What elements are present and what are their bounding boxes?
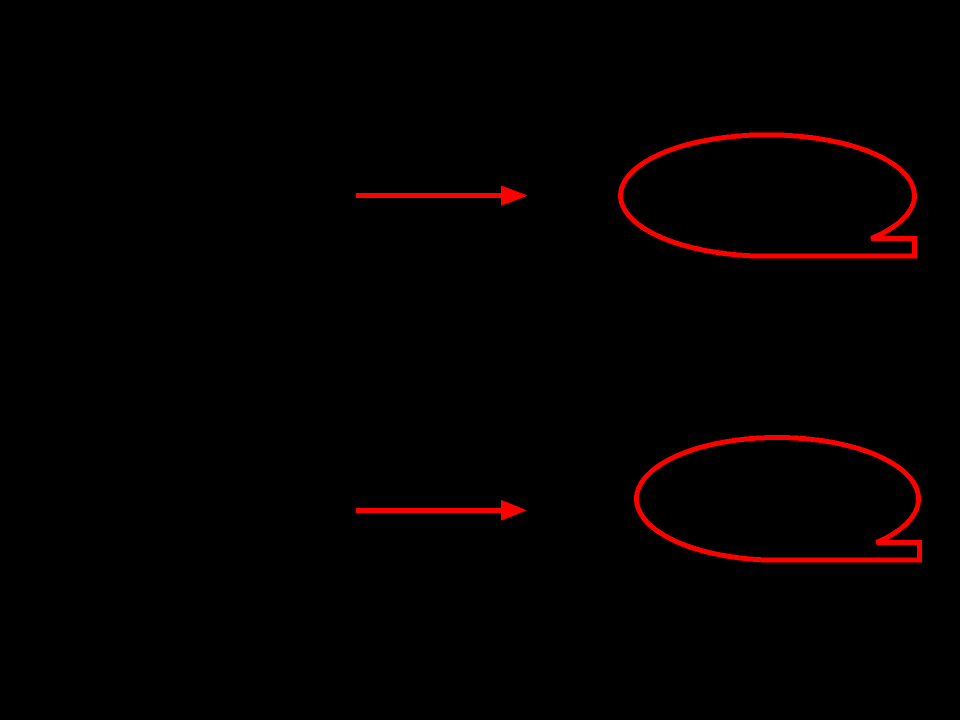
arrow 1 [356, 186, 528, 206]
oval callout 2 [637, 437, 920, 560]
oval callout 1 [621, 135, 915, 256]
arrow 2 [356, 500, 527, 521]
